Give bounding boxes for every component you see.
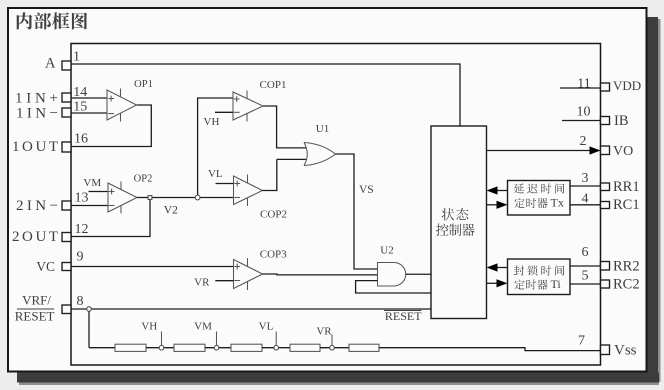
wire VR to COP3 inverting input <box>215 280 233 282</box>
svg-text:10: 10 <box>577 105 591 120</box>
svg-text:VM: VM <box>83 177 101 189</box>
IC body outline <box>71 44 601 366</box>
wire divider chain start <box>89 347 115 349</box>
pin 10 IB square <box>601 117 610 125</box>
comparator COP3 <box>234 260 263 289</box>
resistor R5 <box>349 344 379 351</box>
comparator COP2 <box>234 176 263 205</box>
pin 7 Vss square <box>601 345 610 355</box>
wire U1 output down to U2 top input <box>336 154 378 269</box>
comparator COP1 <box>233 92 263 120</box>
OP1 plus sign <box>108 96 114 102</box>
wire pin9 to COP3 noninverting input <box>71 266 234 268</box>
OP2 minus sign <box>109 205 115 207</box>
wire COP1 output to U1 top input <box>263 106 306 148</box>
node VR tap circle <box>330 345 335 350</box>
svg-text:VRF/: VRF/ <box>22 293 51 308</box>
svg-text:VR: VR <box>316 326 332 338</box>
title 内部框图 <box>17 12 87 29</box>
OP2 plus sign <box>109 189 115 195</box>
pin 12 square <box>62 233 71 242</box>
svg-text:8: 8 <box>77 294 84 309</box>
pin 6 RR2 square <box>601 262 610 271</box>
timer Tx text line2 定时器Tx <box>514 198 547 208</box>
wire state controller feedback to U2 bottom input <box>356 281 431 293</box>
wire timer Ti to state controller (arrow left) <box>495 267 508 269</box>
OP1 minus sign <box>108 113 114 115</box>
COP2 input edge ticks <box>247 175 249 207</box>
wire R3 to R4 <box>262 347 290 349</box>
node VL tap circle <box>274 345 279 350</box>
timer Ti text line1 封锁时间 <box>514 265 564 275</box>
svg-text:1IN+: 1IN+ <box>15 91 58 107</box>
timer Tx text line1 延迟时间 <box>514 183 564 193</box>
drop shadow bottom <box>17 373 659 383</box>
and gate U2 <box>378 263 406 287</box>
wire state controller to pin VO <box>487 150 591 152</box>
resistor R1 <box>115 344 146 351</box>
pin 15 square <box>62 108 71 117</box>
resistor R4 <box>290 344 320 351</box>
svg-text:RR2: RR2 <box>613 259 640 275</box>
svg-text:VC: VC <box>36 259 55 274</box>
junction square node at OP2 output <box>148 196 152 200</box>
pin 5 RC2 square <box>601 280 610 288</box>
svg-text:RC1: RC1 <box>613 197 640 213</box>
drop shadow right <box>648 17 659 382</box>
wire pin8 node down to divider chain <box>88 309 90 348</box>
COP1 input edge ticks <box>246 91 248 122</box>
arrowhead into timer Ti <box>497 279 508 287</box>
COP3 minus sign <box>234 280 240 282</box>
wire IB stub <box>562 120 601 122</box>
wire pin1 to state controller top <box>71 64 460 126</box>
wire COP2 output to U1 bottom input <box>263 159 307 190</box>
wire state controller to timer Ti (arrow right) <box>487 282 500 284</box>
wire state controller to timer Tx (arrow right) <box>487 204 500 206</box>
svg-text:Ti: Ti <box>551 277 562 291</box>
arrowhead into pin VO <box>590 146 601 154</box>
svg-text:1IN−: 1IN− <box>16 106 58 122</box>
pin 4 RC1 square <box>601 202 610 209</box>
COP2 plus sign <box>234 181 240 187</box>
wire pin8 RESET to state controller <box>71 308 431 310</box>
COP1 minus sign <box>234 111 240 113</box>
arrowhead into state controller (Tx) <box>487 186 498 194</box>
svg-text:VH: VH <box>204 116 220 128</box>
svg-text:COP3: COP3 <box>260 249 287 261</box>
svg-text:VDD: VDD <box>613 78 641 93</box>
svg-text:OP2: OP2 <box>134 174 153 185</box>
svg-text:5: 5 <box>582 269 589 284</box>
COP1 plus sign <box>234 96 240 102</box>
timer Ti text line2 定时器Ti <box>514 279 547 289</box>
junction node circle at V2 <box>195 195 200 200</box>
wire R2 to R3 <box>205 347 231 349</box>
wire timer Ti to pin RR2 <box>570 265 601 267</box>
OP2 input edge ticks <box>120 182 122 214</box>
wire pin14 to OP1 noninverting input <box>71 97 107 99</box>
pin 9 square <box>62 263 71 271</box>
wire VM to OP2 noninverting input <box>89 191 109 193</box>
svg-text:COP2: COP2 <box>260 209 287 221</box>
svg-text:OP1: OP1 <box>134 79 153 90</box>
node VR tap tick <box>331 335 333 346</box>
svg-text:RC2: RC2 <box>613 277 640 293</box>
svg-text:Vss: Vss <box>614 343 637 359</box>
lockout timer box 封锁时间定时器Ti <box>508 259 571 295</box>
svg-text:VH: VH <box>141 321 157 333</box>
svg-text:12: 12 <box>75 222 89 237</box>
arrowhead into timer Tx <box>497 201 508 209</box>
wire timer Tx to pin RR1 <box>570 185 601 187</box>
wire R4 to R5 <box>320 347 349 349</box>
wire timer Tx to state controller (arrow left) <box>495 190 508 192</box>
svg-text:V2: V2 <box>164 205 178 217</box>
pin 13 square <box>62 201 71 210</box>
svg-text:11: 11 <box>577 77 590 92</box>
wire timer Tx to pin RC1 <box>570 204 601 206</box>
svg-text:RESET: RESET <box>385 309 422 323</box>
COP2 minus sign <box>234 197 240 199</box>
svg-text:9: 9 <box>77 250 84 265</box>
delay timer box 延迟时间定时器Tx <box>508 181 571 216</box>
svg-text:VL: VL <box>208 168 223 180</box>
state controller box U3 <box>431 126 487 319</box>
op-amp OP2 <box>108 183 137 212</box>
wire OP2 output to COP2 inverting input <box>137 197 234 199</box>
svg-text:1OUT: 1OUT <box>12 139 58 155</box>
wire OP2 output branch down to pin12 <box>71 198 150 237</box>
wire timer Ti to pin RC2 <box>570 283 601 285</box>
node VM tap circle <box>214 345 219 350</box>
svg-text:2IN−: 2IN− <box>16 198 58 214</box>
svg-text:VO: VO <box>613 144 633 159</box>
COP3 input edge ticks <box>247 258 249 290</box>
wire R1 to R2 <box>146 347 174 349</box>
node VL tap tick <box>275 332 277 346</box>
svg-text:VL: VL <box>259 321 274 333</box>
svg-text:A: A <box>45 56 56 72</box>
svg-text:U1: U1 <box>316 123 329 135</box>
pin 11 VDD square <box>601 83 610 91</box>
wire pin15 to OP1 inverting input <box>71 112 107 114</box>
wire R5 to pin7 Vss <box>379 348 601 351</box>
svg-text:16: 16 <box>74 132 88 147</box>
wire U2 output to state controller <box>406 273 431 275</box>
pin 3 RR1 square <box>601 183 610 191</box>
resistor R3 <box>231 344 262 351</box>
pin 14 square <box>62 93 71 102</box>
xor gate U1 <box>304 143 336 166</box>
svg-text:2OUT: 2OUT <box>12 229 58 245</box>
wire VDD stub <box>560 87 601 89</box>
svg-text:IB: IB <box>614 113 629 129</box>
svg-text:VS: VS <box>359 184 374 196</box>
state controller text line2 控制器 <box>436 224 475 236</box>
svg-text:RR1: RR1 <box>613 179 640 195</box>
wire OP1 output to pin16 <box>71 105 151 147</box>
pin 1 A square <box>62 61 71 70</box>
node VM tap tick <box>216 332 218 346</box>
pin 8 square <box>62 305 71 314</box>
RESET overline (pin label) <box>17 308 54 310</box>
svg-text:COP1: COP1 <box>260 79 287 91</box>
COP3 plus sign <box>234 264 240 270</box>
svg-text:3: 3 <box>582 171 589 186</box>
svg-text:VM: VM <box>194 321 212 333</box>
RESET overline (net label) <box>384 310 422 312</box>
svg-text:6: 6 <box>582 245 589 260</box>
svg-text:7: 7 <box>578 334 585 349</box>
op-amp OP1 <box>107 90 137 120</box>
wire VL to COP2 noninverting input <box>216 183 234 185</box>
svg-text:VR: VR <box>194 277 210 289</box>
junction node circle at pin8 <box>87 307 92 312</box>
svg-text:2: 2 <box>580 134 587 149</box>
pin 16 square <box>62 142 71 152</box>
svg-text:1: 1 <box>73 50 80 65</box>
pin 2 VO square <box>601 146 610 155</box>
node VH tap circle <box>159 345 164 350</box>
node VH tap tick <box>161 332 163 346</box>
wire COP3 output to U2 middle input <box>263 273 378 276</box>
svg-text:U2: U2 <box>380 245 393 257</box>
arrowhead into state controller (Ti) <box>487 263 498 271</box>
svg-text:RESET: RESET <box>15 309 55 324</box>
state controller text line1 状态 <box>442 208 469 220</box>
svg-text:Tx: Tx <box>551 196 564 210</box>
wire V2 riser to COP1 noninverting input <box>198 98 233 198</box>
wire pin13 to OP2 inverting input <box>71 205 108 207</box>
resistor R2 <box>174 344 205 351</box>
svg-text:13: 13 <box>75 191 89 206</box>
OP1 input edge ticks <box>120 89 122 122</box>
svg-text:15: 15 <box>73 100 87 115</box>
wire VH to COP1 inverting input <box>215 111 233 113</box>
